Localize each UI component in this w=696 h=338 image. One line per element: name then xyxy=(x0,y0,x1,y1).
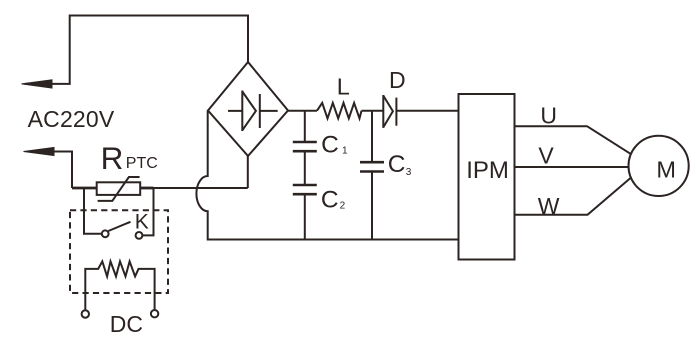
svg-text:PTC: PTC xyxy=(126,155,158,172)
svg-text:2: 2 xyxy=(340,200,346,211)
wire bridge AC2 drop xyxy=(247,156,249,188)
relay dashed box xyxy=(70,210,168,293)
wire PTC lead left xyxy=(72,187,97,190)
wire AC line 1 top xyxy=(25,16,248,84)
svg-text:W: W xyxy=(538,193,560,219)
bridge diode lead xyxy=(228,110,278,112)
bridge diode anode bar xyxy=(241,91,243,132)
resistor relay coil xyxy=(85,261,154,310)
wire phase U xyxy=(515,126,631,154)
wire phase V xyxy=(515,166,629,168)
resistor RPTC thermistor slash xyxy=(98,177,140,201)
bridge diode cathode bar xyxy=(259,94,261,128)
capacitor C1 plates xyxy=(293,142,317,151)
svg-text:C: C xyxy=(388,151,406,178)
contact circle K left xyxy=(102,230,109,237)
svg-text:U: U xyxy=(540,103,557,129)
svg-text:1: 1 xyxy=(342,145,348,156)
capacitor C2 plates xyxy=(293,185,317,194)
wire K branch left drop xyxy=(84,188,102,234)
svg-text:R: R xyxy=(101,140,124,176)
bridge diode triangle xyxy=(242,92,256,131)
svg-text:AC220V: AC220V xyxy=(28,106,115,132)
arrowhead AC line 1 xyxy=(22,80,53,88)
IPM box U1 xyxy=(459,94,515,260)
wire bridge DC- with hop and bottom rail xyxy=(196,111,458,240)
terminal DC left xyxy=(82,310,89,317)
capacitor C3 plates xyxy=(360,162,384,171)
diode D triangle xyxy=(383,96,393,128)
svg-text:V: V xyxy=(538,142,554,168)
svg-text:M: M xyxy=(656,157,676,183)
svg-text:D: D xyxy=(389,67,406,93)
switch K lever xyxy=(108,222,130,231)
wire K branch right drop xyxy=(142,188,153,235)
svg-text:IPM: IPM xyxy=(466,157,509,184)
arrowhead AC line 2 xyxy=(24,147,55,155)
svg-text:C: C xyxy=(321,187,339,214)
svg-text:C: C xyxy=(321,132,339,159)
svg-text:3: 3 xyxy=(406,167,412,178)
wire phase W xyxy=(515,178,631,215)
wire DC+ bus xyxy=(288,110,459,112)
diode D cathode bar xyxy=(395,98,397,126)
wire C3 branch xyxy=(371,111,373,240)
bridge rectifier diamond xyxy=(208,62,288,156)
inductor L zigzag xyxy=(317,103,362,119)
contact circle K right xyxy=(136,232,143,239)
motor M circle xyxy=(629,136,689,196)
svg-text:DC: DC xyxy=(110,311,143,337)
wire C1 C2 branch xyxy=(304,111,306,240)
svg-text:L: L xyxy=(337,74,350,100)
terminal DC right xyxy=(151,310,158,317)
wire AC line 2 xyxy=(27,152,72,189)
svg-text:K: K xyxy=(135,211,149,234)
diode D anode bar xyxy=(382,95,384,128)
wire PTC lead right xyxy=(140,187,153,190)
resistor RPTC body xyxy=(97,182,141,195)
wire from PTC to bridge AC2 xyxy=(154,187,248,189)
